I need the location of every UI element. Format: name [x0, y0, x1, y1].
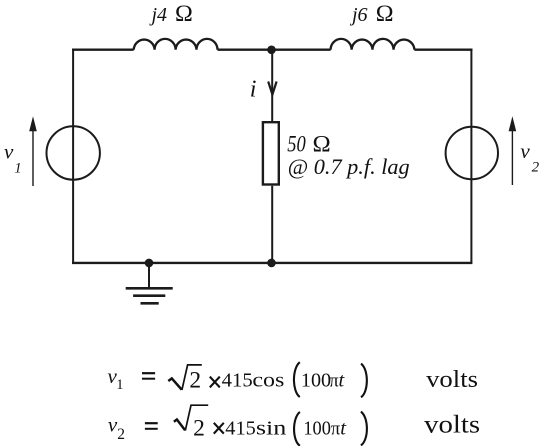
wire right branch — [470, 49, 472, 263]
wire top-right segment — [414, 49, 472, 51]
svg-text:2: 2 — [189, 367, 201, 393]
wire top-left segment — [72, 49, 134, 51]
equation 2 times sign — [214, 423, 224, 434]
ground bar 1 — [126, 287, 173, 290]
node junction dot top of middle branch — [267, 46, 276, 55]
svg-text:100: 100 — [303, 417, 331, 439]
resistor R 50 ohm — [263, 122, 279, 184]
svg-text:100: 100 — [301, 369, 331, 391]
equation 1 open paren — [294, 362, 300, 397]
ground bar 3 — [141, 302, 159, 305]
equation 2 equals sign — [145, 422, 158, 424]
svg-text:j4: j4 — [149, 4, 168, 26]
svg-text:j6: j6 — [349, 4, 368, 26]
svg-text:v: v — [4, 140, 14, 164]
wire middle branch upper — [271, 50, 273, 121]
svg-text:i: i — [250, 76, 257, 102]
svg-text:Ω: Ω — [376, 1, 394, 27]
wire middle branch lower — [271, 186, 273, 263]
arrow v1 polarity head — [29, 116, 37, 131]
voltage source V1 — [46, 126, 99, 179]
inductor L1 j4 ohm — [134, 39, 218, 50]
node junction dot bottom of middle branch — [267, 259, 276, 268]
svg-text:Ω: Ω — [175, 1, 193, 27]
equation 2 close paren — [361, 412, 367, 446]
node junction dot at ground — [145, 259, 154, 268]
inductor L2 j6 ohm — [331, 39, 415, 50]
equation 2 radical sign — [174, 420, 185, 431]
svg-text:t: t — [339, 369, 346, 391]
equation 1 equals sign — [142, 372, 155, 374]
svg-text:volts: volts — [426, 366, 478, 393]
svg-text:t: t — [340, 417, 347, 439]
svg-text:v: v — [520, 139, 530, 163]
arrow v2 polarity head — [509, 116, 517, 131]
svg-text:1: 1 — [116, 377, 123, 393]
svg-text:415: 415 — [225, 417, 256, 439]
wire bottom segment — [72, 262, 472, 264]
svg-text:2: 2 — [117, 426, 125, 443]
svg-text:2: 2 — [193, 415, 205, 441]
ground bar 2 — [133, 294, 165, 297]
ground stem — [148, 263, 150, 289]
svg-text:2: 2 — [532, 159, 540, 175]
svg-text:1: 1 — [14, 160, 21, 176]
wire left branch — [72, 49, 74, 263]
svg-text:cos: cos — [252, 369, 284, 391]
equation 2 open paren — [294, 412, 300, 446]
svg-text:415: 415 — [222, 369, 253, 391]
voltage source V2 — [446, 127, 498, 179]
equation 1 times sign — [210, 377, 220, 388]
wire top-middle segment — [218, 49, 331, 51]
equation 1 radical sign — [168, 378, 181, 389]
svg-text:@ 0.7 p.f. lag: @ 0.7 p.f. lag — [288, 154, 410, 179]
svg-text:volts: volts — [424, 409, 480, 438]
svg-text:sin: sin — [256, 417, 287, 439]
equation 1 close paren — [361, 364, 367, 398]
arrow current i head — [268, 82, 276, 95]
arrow v1 polarity shaft — [32, 129, 34, 186]
arrow v2 polarity shaft — [511, 129, 513, 185]
